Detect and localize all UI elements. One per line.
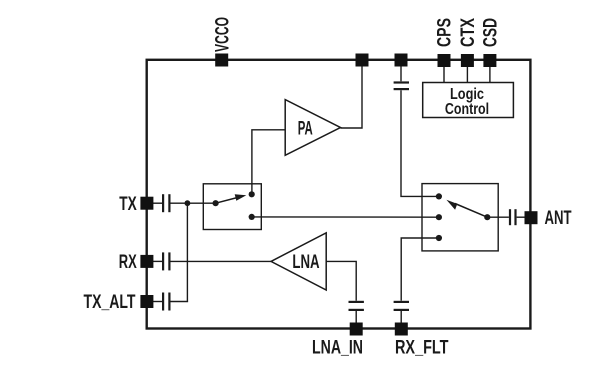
svg-text:PA: PA — [298, 117, 313, 139]
switch SW1 throw contact to PA — [249, 191, 255, 197]
pin TX_ALT — [140, 295, 153, 308]
wire TX_ALT pin to capacitor C3 — [150, 301, 162, 303]
wire SW2 lower throw to RX_FLT path — [401, 238, 439, 301]
svg-text:Control: Control — [445, 101, 489, 118]
logic control block U1 — [423, 83, 514, 118]
capacitor C6 (RX_FLT) — [394, 302, 409, 310]
svg-text:VCCO: VCCO — [211, 17, 233, 52]
node A junction dot — [185, 200, 191, 206]
wire TX pin to capacitor C1 — [150, 202, 162, 204]
capacitor C3 (TX_ALT) — [163, 293, 169, 311]
wire C5 to LNA_IN pin — [355, 311, 357, 326]
pin CSD — [483, 54, 496, 67]
capacitor C4 (RX filter top) — [394, 83, 409, 90]
switch SW2 throw contact lower (RX_FLT) — [436, 235, 442, 241]
capacitor C7 (ANT) — [510, 209, 516, 225]
switch SW2 throw contact middle (TX path) — [436, 214, 442, 220]
svg-text:RX_FLT: RX_FLT — [395, 337, 449, 359]
wire LNA input apex from RX line (apex at triangle) — [271, 233, 326, 290]
pin VCCO — [215, 54, 228, 67]
svg-text:CPS: CPS — [434, 18, 456, 47]
svg-text:TX: TX — [119, 193, 137, 215]
wire C7 to ANT pin — [517, 216, 527, 218]
wire SW1 upper throw up to PA input — [252, 130, 285, 195]
svg-text:CSD: CSD — [480, 18, 502, 47]
switch SW2 box — [422, 184, 498, 251]
pin P3 (RX filter feed) — [395, 54, 408, 67]
wire node A down to TX_ALT branch — [186, 203, 188, 301]
wire C2 to LNA output apex — [171, 260, 272, 262]
switch SW1 arm with arrowhead — [216, 194, 247, 203]
pin RX — [140, 255, 153, 268]
pin RX_FLT — [395, 323, 408, 336]
wire LNA output to LNA_IN pin via capacitor C5 — [326, 261, 356, 300]
switch SW2 arm with arrowhead — [446, 200, 487, 218]
switch SW2 throw contact upper (RX filter) — [436, 193, 442, 199]
capacitor C1 (TX) — [163, 194, 169, 212]
wire RX pin to capacitor C2 — [150, 260, 162, 262]
switch SW2 pole contact (ANT) — [484, 214, 490, 220]
wire SW2 pole to capacitor C7 — [487, 216, 509, 218]
switch SW1 throw contact to RX path — [249, 214, 255, 220]
wire C4 down to SW2 upper throw — [401, 90, 439, 196]
wire SW1 lower throw to SW2 middle throw — [252, 216, 439, 218]
svg-text:RX: RX — [119, 251, 137, 273]
svg-text:LNA: LNA — [292, 251, 319, 273]
capacitor C5 (LNA_IN) — [349, 302, 364, 310]
switch SW1 pole contact — [213, 200, 219, 206]
svg-text:LNA_IN: LNA_IN — [312, 337, 363, 359]
svg-text:CTX: CTX — [457, 18, 479, 47]
pin TX — [140, 197, 153, 210]
svg-text:ANT: ANT — [545, 207, 572, 229]
wire CTX to Logic Control — [466, 66, 468, 83]
pin ANT — [525, 211, 538, 224]
wire node A to SW1 pole — [187, 202, 215, 204]
pin CPS — [438, 54, 451, 67]
op-amp PA — [285, 100, 340, 156]
wire top pin P3 down to capacitor C4 — [400, 66, 402, 81]
chip outline — [147, 60, 531, 329]
wire CPS to Logic Control — [443, 66, 445, 83]
wire CSD to Logic Control — [489, 66, 491, 83]
wire C3 to node A branch — [171, 301, 189, 303]
wire C6 to RX_FLT pin — [400, 311, 402, 326]
capacitor C2 (RX) — [163, 252, 169, 270]
wire C1 to node A — [171, 202, 188, 204]
label Logic Control — [445, 86, 489, 118]
pin P2 (PA output feed) — [356, 54, 369, 67]
pin LNA_IN — [350, 323, 363, 336]
switch SW1 box — [203, 184, 261, 230]
wire PA output to top pin P2 — [341, 66, 363, 128]
pin CTX — [461, 54, 474, 67]
svg-text:TX_ALT: TX_ALT — [84, 291, 136, 313]
